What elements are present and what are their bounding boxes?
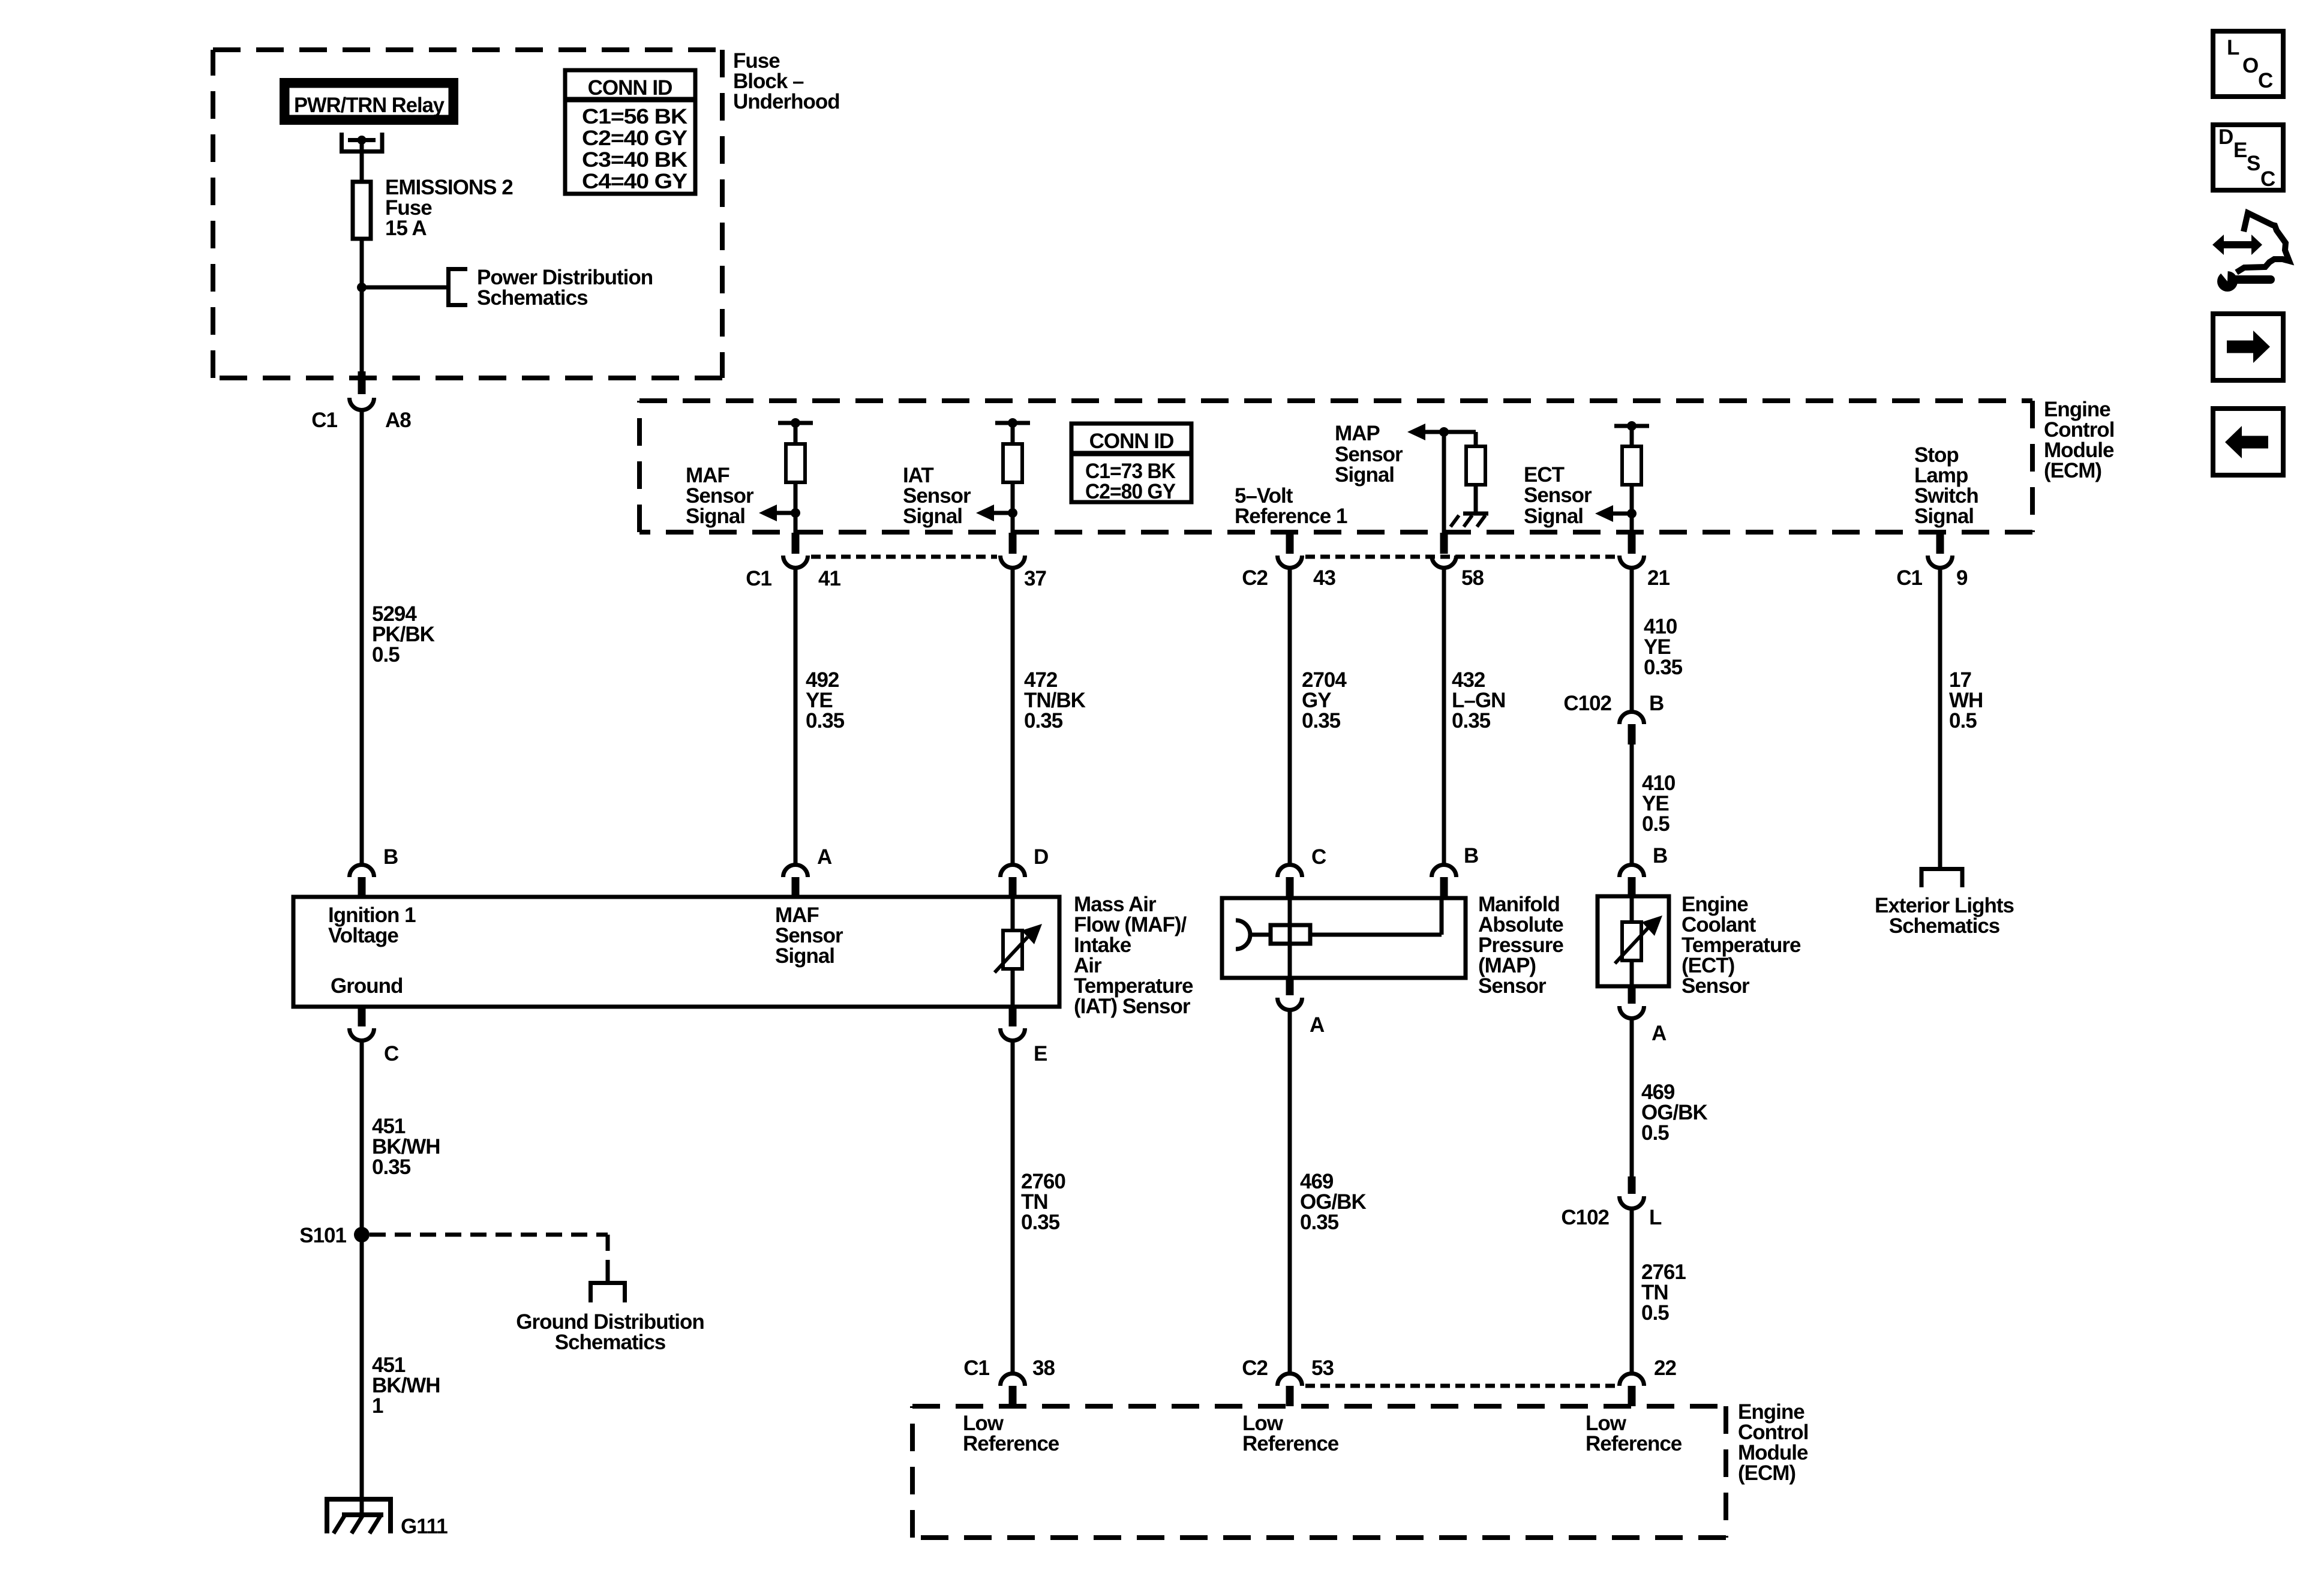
wire junction to power distribution bracket [362,286,448,290]
label Ground (MAF box) [331,974,403,998]
wire 451 BK/WH 1 (S101 to G111) [360,1235,364,1515]
svg-text:Sensor: Sensor [1682,974,1750,998]
label Ignition 1 Voltage [328,903,416,947]
label pin B (ECT) [1653,844,1667,867]
label Ground Distribution Schematics [516,1310,704,1354]
label EMISSIONS 2 Fuse 15 A [385,176,513,240]
svg-text:Sensor: Sensor [1524,484,1592,507]
svg-text:C: C [2260,167,2275,191]
label Engine Control Module (ECM) bottom [1738,1400,1808,1485]
svg-text:B: B [383,845,398,869]
svg-text:C102: C102 [1561,1206,1609,1229]
label C1 pin 9 [1896,566,1968,590]
label Low Reference (pin 22) [1586,1412,1682,1455]
svg-text:1: 1 [372,1394,383,1418]
label 451 BK/WH 0.35 [372,1115,440,1179]
sensor box MAP [1222,898,1466,978]
label pin C (MAF) [384,1042,399,1065]
svg-text:C1: C1 [963,1356,989,1380]
label Low Reference (pin 38) [963,1412,1059,1455]
wire 410 YE 0.5 (C102 B to ECT B) [1630,745,1634,864]
junction dot power distribution tap [357,283,367,292]
table CONN ID (fuse block connectors) [565,70,695,194]
bracket ground distribution off-page symbol [591,1267,625,1302]
svg-text:(ECM): (ECM) [1738,1461,1795,1485]
svg-text:Ground: Ground [331,974,403,998]
svg-text:S101: S101 [299,1224,346,1247]
svg-text:C1: C1 [746,567,771,590]
label 2760 TN 0.35 [1021,1170,1065,1234]
resistor MAP pull-up in ECM [1444,432,1485,514]
svg-text:MAP: MAP [1335,422,1380,445]
connector pin B (MAP signal) [1432,864,1457,898]
icon forward arrow box [2213,314,2283,380]
svg-text:0.5: 0.5 [372,643,400,667]
wire 432 L-GN 0.35 (pin 58 to MAP B) [1442,566,1446,864]
connector C102 pin B (in-line) [1620,712,1644,745]
svg-text:E: E [1034,1042,1047,1065]
svg-text:C1=56 BK: C1=56 BK [582,105,687,128]
splice S101 [354,1227,370,1242]
arrow IAT sensor signal [976,505,1017,521]
icon LOC box [2213,31,2283,97]
svg-text:C2=80 GY: C2=80 GY [1085,480,1176,503]
svg-text:C3=40 BK: C3=40 BK [582,148,687,172]
label 432 L-GN 0.35 [1452,668,1505,733]
connector C102 pin L (in-line) [1620,1176,1644,1208]
svg-text:C1: C1 [311,409,337,432]
svg-text:C2: C2 [1242,1356,1268,1380]
label pin 58 [1461,566,1484,590]
label pin B (MAF) [383,845,398,869]
resistor IAT pull-up in ECM [995,418,1030,533]
wire 5294 PK/BK 0.5 [360,409,364,864]
wire 410 YE 0.35 (pin 21 to C102 B) [1630,566,1634,711]
label S101 [299,1224,346,1247]
svg-text:C102: C102 [1563,692,1611,715]
svg-text:Sensor: Sensor [1478,974,1547,998]
svg-text:0.5: 0.5 [1641,1121,1669,1145]
wire 2760 TN 0.35 (IAT E to pin 38) [1011,1039,1015,1373]
label Power Distribution Schematics [477,266,653,310]
connector C1 pin A8 [350,371,374,410]
label 5294 PK/BK 0.5 [372,602,435,667]
relay PWR/TRN contact symbol [342,133,383,152]
svg-text:0.5: 0.5 [1642,812,1670,836]
icon back arrow box [2213,409,2283,475]
connector pin A (MAF sensor) [783,865,808,897]
svg-text:L: L [1649,1206,1662,1229]
label pin C (MAP) [1311,845,1326,869]
label Exterior Lights Schematics [1875,894,2014,938]
label C1 pin 38 [963,1356,1055,1380]
svg-text:43: 43 [1313,566,1335,590]
svg-text:0.35: 0.35 [806,709,845,733]
label Engine Control Module (ECM) top [2044,398,2114,482]
dashed connector line pins 53-22 [1305,1384,1616,1388]
svg-text:15 A: 15 A [385,217,427,240]
ECM dashed box (Engine Control Module) [639,401,2032,532]
wire 492 YE 0.35 (pin 41 to MAF A) [794,566,798,864]
label C2 pin 43 [1242,566,1335,590]
label pin E (IAT) [1034,1042,1047,1065]
arrow MAP sensor signal [1407,424,1449,440]
thermistor ECT variable resistor [1615,896,1662,986]
connector pin C (MAP 5V ref) [1278,864,1302,898]
svg-text:O: O [2242,54,2258,77]
sensor box MAF/IAT [293,897,1059,1007]
svg-text:9: 9 [1956,566,1968,590]
ECM dashed box bottom (Engine Control Module) [912,1406,1726,1538]
relay K PWR/TRN Relay box [284,82,454,121]
label Engine Coolant Temperature (ECT) Sensor [1682,893,1801,998]
svg-text:CONN ID: CONN ID [588,76,672,100]
label C1 (fuse block connector) [311,409,337,432]
svg-text:0.35: 0.35 [1021,1211,1060,1234]
svg-text:D: D [2218,125,2233,149]
svg-text:22: 22 [1654,1356,1676,1380]
label pin A (MAF) [817,845,832,869]
svg-text:A: A [1652,1022,1667,1045]
dashed connector line pins 41-37 [811,555,997,559]
svg-text:38: 38 [1032,1356,1055,1380]
connector pin B (MAF sensor) [350,864,374,897]
svg-text:Schematics: Schematics [477,286,588,310]
svg-text:CONN ID: CONN ID [1089,430,1174,453]
svg-text:E: E [2233,139,2247,162]
svg-text:S: S [2247,152,2260,175]
svg-text:Signal: Signal [1335,463,1394,487]
label pin 21 [1647,566,1670,590]
svg-text:0.35: 0.35 [1300,1211,1339,1234]
connector pin E (IAT low ref) [1001,1007,1025,1041]
thermistor IAT variable resistor [995,897,1042,1007]
wire 472 TN/BK 0.35 (pin 37 to IAT D) [1011,566,1015,864]
svg-text:(IAT) Sensor: (IAT) Sensor [1074,995,1191,1018]
label Low Reference (pin 53) [1242,1412,1339,1455]
wire MAP signal to pin 58 [1442,432,1446,533]
label ECT Sensor Signal [1524,463,1592,528]
label C102 (L) [1561,1206,1662,1229]
label pin 37 [1024,567,1046,590]
dashed connector line pins 43-58-21 [1305,555,1616,559]
connector pin 21 (ECM C2) [1620,533,1644,568]
connector pin 58 (ECM C2) [1432,533,1457,568]
wire MAP element to pin B [1310,898,1442,935]
sensor box ECT [1598,896,1669,986]
svg-text:Signal: Signal [686,505,745,528]
svg-text:Underhood: Underhood [733,90,840,113]
label 410 YE 0.5 [1642,772,1676,836]
svg-text:Signal: Signal [775,944,834,968]
connector pin D (IAT) [1001,864,1025,897]
svg-text:0.35: 0.35 [1302,709,1341,733]
ground G111 symbol [325,1499,393,1533]
svg-text:0.35: 0.35 [1644,656,1683,679]
label Manifold Absolute Pressure (MAP) Sensor [1478,893,1563,998]
connector pin 53 (ECM C2 low ref) [1278,1374,1302,1407]
label Fuse Block - Underhood [733,49,840,113]
label pin A (MAP) [1310,1013,1325,1037]
svg-text:0.5: 0.5 [1641,1301,1669,1325]
svg-text:B: B [1649,692,1664,715]
label MAF Sensor Signal (box) [775,903,843,968]
svg-text:C: C [1311,845,1326,869]
svg-text:Voltage: Voltage [328,924,398,947]
label pin A (ECT) [1652,1022,1667,1045]
svg-text:C2=40 GY: C2=40 GY [582,127,687,150]
wire 469 OG/BK 0.35 (MAP A to pin 53) [1288,1008,1292,1373]
pressure port symbol (MAP) [1236,920,1271,949]
svg-text:Reference 1: Reference 1 [1235,505,1347,528]
resistor MAF pull-up in ECM [778,418,813,533]
arrow MAF sensor signal [759,505,800,521]
connector pin A (ECT low ref) [1620,986,1644,1019]
table CONN ID (ECM connectors) [1071,424,1191,503]
bracket power distribution off-page symbol [449,269,468,305]
svg-text:0.5: 0.5 [1949,709,1977,733]
wire 451 BK/WH 0.35 (C to S101) [360,1039,364,1235]
svg-text:37: 37 [1024,567,1046,590]
svg-text:Signal: Signal [1914,505,1974,528]
connector pin B (ECT signal) [1620,864,1644,896]
svg-text:Schematics: Schematics [1889,914,2000,938]
svg-text:B: B [1464,844,1478,867]
svg-text:C2: C2 [1242,566,1268,590]
wire relay to fuse [360,142,364,182]
svg-text:PWR/TRN Relay: PWR/TRN Relay [294,94,445,117]
wire 2761 TN 0.5 (C102 L to pin 22) [1630,1207,1634,1373]
wire fuse to junction [360,239,364,378]
label C2 pin 53 [1242,1356,1334,1380]
transducer element MAP [1271,925,1310,944]
connector pin 43 (ECM C2) [1278,533,1302,568]
svg-text:B: B [1653,844,1667,867]
svg-text:53: 53 [1311,1356,1334,1380]
label 492 YE 0.35 [806,668,845,733]
label G111 [401,1515,448,1538]
svg-text:Reference: Reference [963,1432,1059,1455]
label 472 TN/BK 0.35 [1024,668,1086,733]
svg-text:A: A [1310,1013,1325,1037]
svg-text:C: C [2258,69,2273,92]
label 2761 TN 0.5 [1641,1260,1686,1325]
label pin D (IAT) [1034,845,1048,869]
ground internal ECM (MAP pull-up) [1451,514,1488,527]
wire 2704 GY 0.35 (pin 43 to MAP C) [1288,566,1292,864]
svg-text:L: L [2227,36,2239,59]
svg-text:0.35: 0.35 [372,1155,411,1179]
wire MAP 5V ref through box [1288,898,1292,978]
svg-text:(ECM): (ECM) [2044,459,2101,482]
connector pin 22 (ECM low ref) [1620,1374,1644,1407]
label pin B (MAP) [1464,844,1478,867]
svg-text:41: 41 [818,567,840,590]
label 5-Volt Reference 1 [1235,484,1347,528]
arrow ECT sensor signal [1595,505,1637,522]
svg-text:Schematics: Schematics [555,1331,666,1354]
connector pin A (MAP low ref) [1278,978,1302,1010]
connector pin 41 (ECM C1) [783,533,808,568]
label 469 OG/BK 0.35 [1300,1170,1366,1234]
label Mass Air Flow (MAF)/ Intake Air Temperature (IAT) Sensor [1074,893,1193,1018]
resistor ECT pull-up in ECM [1614,421,1649,533]
fuse block dashed box (Fuse Block - Underhood) [213,50,722,378]
label 451 BK/WH 1 [372,1353,440,1418]
svg-text:0.35: 0.35 [1024,709,1063,733]
svg-text:G111: G111 [401,1515,448,1538]
label Stop Lamp Switch Signal [1914,443,1978,528]
label MAP Sensor Signal [1335,422,1403,487]
fuse F EMISSIONS 2 15A [353,182,371,239]
connector pin 38 (ECM C1 low ref) [1001,1374,1025,1407]
svg-text:Reference: Reference [1586,1432,1682,1455]
svg-text:A: A [817,845,832,869]
icon DESC box [2213,125,2283,191]
svg-text:D: D [1034,845,1048,869]
svg-text:58: 58 [1461,566,1484,590]
svg-text:0.35: 0.35 [1452,709,1491,733]
label IAT Sensor Signal [903,464,971,528]
wire 17 WH 0.5 (pin 9 to exterior lights) [1938,566,1942,869]
label 2704 GY 0.35 [1302,668,1347,733]
svg-text:C1: C1 [1896,566,1922,590]
svg-text:Signal: Signal [1524,505,1583,528]
svg-text:Signal: Signal [903,505,962,528]
dashed wire S101 to ground distribution [370,1235,608,1267]
connector pin 9 (ECM C1, stop lamp) [1928,533,1953,568]
label C102 (B) [1563,692,1664,715]
label A8 (pin) [385,409,411,432]
svg-text:C: C [384,1042,399,1065]
label MAF Sensor Signal [686,464,754,528]
wire 469 OG/BK 0.5 (ECT A to C102 L) [1630,1017,1634,1176]
bracket exterior lights off-page symbol [1921,869,1962,888]
label 17 WH 0.5 [1949,668,1983,733]
icon vehicle double-arrow with wrench [2212,213,2289,292]
svg-text:A8: A8 [385,409,411,432]
connector pin C (MAF ground) [350,1007,374,1041]
svg-text:Reference: Reference [1242,1432,1339,1455]
svg-text:C4=40 GY: C4=40 GY [582,170,687,193]
connector pin 37 (ECM C1) [1001,533,1025,568]
svg-text:21: 21 [1647,566,1670,590]
label pin 22 [1654,1356,1676,1380]
label C1 pin 41 [746,567,840,590]
label 410 YE 0.35 [1644,615,1683,679]
label 469 OG/BK 0.5 [1641,1080,1707,1145]
